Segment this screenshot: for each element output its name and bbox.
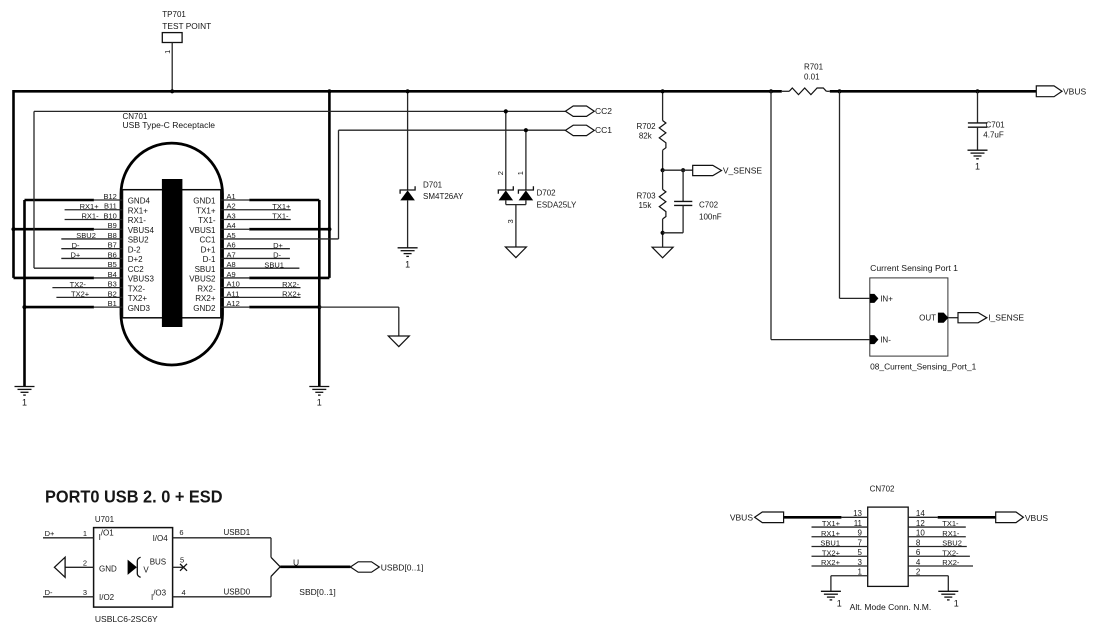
svg-text:A10: A10 (227, 280, 240, 289)
connector CN701 USB Type-C receptacle (121, 112, 223, 365)
pin 11 CN702 (812, 519, 868, 528)
svg-text:100nF: 100nF (699, 213, 722, 222)
ground (open triangle) R703/C702 (652, 247, 673, 258)
wire shield from A12 row (319, 306, 399, 308)
diode D702 ESDA25LY (dual) (498, 186, 577, 209)
port VBUS flag (CN702 left) (755, 512, 784, 523)
wire V_SENSE node horizontal (663, 169, 693, 171)
resistor R702 82k (636, 121, 665, 151)
ground (earth) CN702 pin 2 (938, 591, 959, 608)
svg-text:TX1+: TX1+ (822, 519, 841, 528)
pin 6 CN702 (908, 548, 970, 557)
capacitor C702 100nF (663, 170, 722, 233)
wire node to R703 (662, 170, 664, 189)
svg-text:1: 1 (405, 260, 410, 270)
svg-text:1: 1 (954, 598, 959, 608)
port VBUS flag (top right) (1036, 86, 1062, 97)
junction left VBUS rail / B9 (11, 227, 15, 231)
wire CC2 net from pin B5 (34, 267, 123, 269)
wire VBUS1 pin A4 (249, 228, 329, 231)
svg-text:3: 3 (83, 588, 87, 597)
node V_SENSE junctions (661, 168, 665, 172)
svg-text:D+: D+ (45, 529, 55, 538)
port V_SENSE flag (693, 165, 722, 175)
pin B8 (SBU2) (61, 231, 149, 245)
svg-text:D702: D702 (537, 188, 557, 197)
svg-text:VBUS2: VBUS2 (189, 275, 216, 284)
svg-text:RX2-: RX2- (197, 284, 216, 293)
svg-text:PORT0 USB 2. 0 + ESD: PORT0 USB 2. 0 + ESD (45, 486, 223, 506)
svg-text:B9: B9 (108, 221, 117, 230)
svg-text:2: 2 (496, 171, 505, 175)
svg-text:B3: B3 (108, 280, 117, 289)
svg-text:U: U (293, 557, 299, 567)
svg-text:A11: A11 (227, 289, 240, 298)
pin OUT (938, 313, 949, 323)
svg-text:B12: B12 (103, 192, 116, 201)
pin 5 CN702 (812, 548, 868, 557)
wire VBUS left rail (12, 90, 15, 278)
svg-text:USBLC6-2SC6Y: USBLC6-2SC6Y (95, 614, 158, 624)
svg-text:A4: A4 (227, 221, 236, 230)
svg-text:Current Sensing Port 1: Current Sensing Port 1 (870, 264, 958, 273)
port CC2 flag (565, 106, 594, 116)
svg-text:B6: B6 (108, 250, 117, 259)
svg-text:RX2+: RX2+ (282, 290, 302, 299)
junction right VBUS rail / A4 (327, 227, 331, 231)
wire VBUS4 pin B9 (14, 228, 94, 231)
wire VBUS to D701 (407, 91, 409, 190)
svg-text:RX2-: RX2- (282, 280, 300, 289)
wire VBUS to CN702 pin 14 (938, 516, 996, 519)
svg-text:A9: A9 (227, 270, 236, 279)
svg-text:USBD1: USBD1 (224, 528, 251, 537)
svg-text:TX2-: TX2- (70, 280, 87, 289)
svg-text:RX2-: RX2- (942, 558, 960, 567)
svg-text:1: 1 (22, 398, 27, 408)
svg-text:VBUS3: VBUS3 (128, 275, 155, 284)
zener diode inside U701 (128, 557, 167, 577)
svg-text:TX1+: TX1+ (196, 206, 216, 215)
junction bus/R702 (661, 89, 665, 93)
pin B4 (VBUS3) (94, 270, 155, 284)
svg-text:VBUS1: VBUS1 (189, 226, 216, 235)
pin 4 CN702 (908, 558, 973, 567)
wire USBD bus (thick) (280, 565, 350, 568)
wire GND2 pin A12 (249, 306, 319, 309)
svg-text:TX1-: TX1- (198, 216, 216, 225)
svg-text:RX1+: RX1+ (128, 206, 149, 215)
junction left GND rail / B1 (22, 305, 26, 309)
svg-text:TX2-: TX2- (128, 284, 146, 293)
svg-text:D+2: D+2 (128, 255, 143, 264)
wire CN702 pin 2 to ground (947, 576, 949, 592)
block U current sensing port 1 (870, 264, 977, 372)
svg-text:3: 3 (506, 219, 515, 223)
svg-text:RX1-: RX1- (128, 216, 147, 225)
wire VBUS bus (top horizontal) (14, 90, 782, 93)
pin A1 (GND1) (193, 192, 249, 206)
svg-text:TX2+: TX2+ (71, 290, 90, 299)
svg-text:2: 2 (83, 558, 87, 567)
svg-text:1: 1 (516, 171, 525, 175)
connector CN702 (868, 485, 909, 587)
svg-text:CC2: CC2 (595, 106, 612, 116)
svg-text:VBUS: VBUS (1063, 87, 1086, 97)
wire VBUS to CN702 pin 13 (784, 516, 842, 519)
svg-text:RX1+: RX1+ (80, 202, 100, 211)
wire bus gather USBD0 (270, 576, 272, 596)
svg-text:1: 1 (975, 162, 980, 172)
pin B2 (TX2+) (56, 289, 147, 303)
pin A4 (VBUS1) (189, 221, 249, 235)
svg-text:A6: A6 (227, 241, 236, 250)
pin 1 CN702 (831, 568, 868, 577)
svg-text:IN+: IN+ (880, 294, 893, 303)
svg-text:D+1: D+1 (201, 245, 216, 254)
svg-text:6: 6 (179, 528, 183, 537)
svg-text:I/O2: I/O2 (99, 593, 115, 602)
wire USBD1 (173, 537, 271, 539)
svg-text:A3: A3 (227, 211, 236, 220)
svg-text:U701: U701 (95, 515, 115, 524)
pin 3 CN702 (812, 558, 868, 567)
wire VBUS3 pin B4 (14, 277, 94, 280)
pin 2 CN702 (908, 568, 948, 577)
svg-text:A7: A7 (227, 250, 236, 259)
wire R703 to ground node (662, 219, 664, 247)
wire D702 pin 1 from CC1 (525, 130, 527, 190)
ground (earth) left of CN701 (15, 387, 35, 408)
wire GND1 pin A1 (249, 199, 319, 202)
svg-text:A8: A8 (227, 260, 236, 269)
pin B9 (VBUS4) (94, 221, 155, 235)
port VBUS flag (CN702 right) (996, 512, 1024, 523)
pin A10 (RX2-) (197, 280, 300, 294)
wire D702 pin 2 from CC2 (505, 111, 507, 190)
junction CC2/D702 pin2 (504, 109, 508, 113)
svg-text:SBU2: SBU2 (76, 231, 96, 240)
svg-text:1: 1 (317, 398, 322, 408)
pin 8 CN702 (908, 538, 967, 547)
svg-text:SBU2: SBU2 (128, 236, 149, 245)
pin A6 (D+1) (201, 241, 290, 255)
svg-text:CC1: CC1 (199, 236, 216, 245)
svg-text:VBUS: VBUS (730, 513, 753, 523)
junction bus/C701 (975, 89, 979, 93)
port I_SENSE flag (958, 313, 987, 323)
wire OUT to I_SENSE (949, 317, 959, 319)
wire GND left rail (23, 200, 26, 387)
pin A5 (CC1) (199, 231, 235, 245)
svg-text:I_SENSE: I_SENSE (988, 313, 1024, 323)
svg-text:GND: GND (99, 565, 117, 574)
svg-text:D-1: D-1 (203, 255, 216, 264)
IC U701 USBLC6-2SC6Y (94, 515, 173, 607)
wire bus to R702 (662, 91, 664, 120)
svg-text:B8: B8 (108, 231, 117, 240)
svg-text:TX2-: TX2- (942, 548, 959, 557)
svg-text:08_Current_Sensing_Port_1: 08_Current_Sensing_Port_1 (870, 363, 977, 372)
svg-text:OUT: OUT (919, 314, 936, 323)
svg-text:RX1-: RX1- (82, 212, 100, 221)
svg-text:R703: R703 (636, 192, 656, 201)
pin A11 (RX2+) (195, 289, 300, 303)
resistor R701 0.01 (782, 62, 830, 94)
junction VBUS bus / right rail (327, 89, 331, 93)
svg-text:B10: B10 (103, 211, 116, 220)
wire VBUS bus right of R701 (830, 90, 1037, 93)
svg-text:1: 1 (165, 50, 172, 54)
svg-text:CN702: CN702 (870, 485, 895, 494)
svg-text:D-2: D-2 (128, 245, 141, 254)
pin B6 (D+2) (61, 250, 143, 264)
pin B11 (RX1+) (65, 202, 149, 216)
port USBD[0..1] bus flag (350, 562, 379, 572)
wire GND3 pin B1 (25, 306, 94, 309)
svg-text:/O1: /O1 (101, 529, 114, 538)
svg-text:SBD[0..1]: SBD[0..1] (299, 587, 335, 597)
svg-text:RX2+: RX2+ (821, 558, 841, 567)
svg-text:TX2+: TX2+ (128, 294, 148, 303)
svg-text:TX1-: TX1- (942, 519, 959, 528)
svg-text:82k: 82k (639, 132, 653, 141)
capacitor C701 4.7uF (968, 91, 1005, 150)
svg-text:CC2: CC2 (128, 265, 145, 274)
wire VBUS2 pin A9 (249, 277, 329, 280)
pin 7 CN702 (812, 538, 868, 547)
pin B10 (RX1-) (65, 211, 147, 225)
wire CC1 net from pin A5 (221, 238, 339, 240)
svg-text:USB Type-C Receptacle: USB Type-C Receptacle (123, 121, 216, 130)
svg-text:/O3: /O3 (153, 589, 166, 598)
pin B5 (CC2) (108, 260, 145, 274)
svg-text:TEST POINT: TEST POINT (162, 22, 211, 31)
wire CN702 pin 1 to ground (830, 576, 832, 592)
svg-text:VBUS: VBUS (1025, 513, 1048, 523)
svg-text:A1: A1 (227, 192, 236, 201)
pin A3 (TX1-) (198, 211, 291, 225)
svg-text:SBU2: SBU2 (942, 539, 962, 548)
ground (earth) CN702 pin 1 (821, 591, 842, 608)
svg-text:TX1+: TX1+ (272, 202, 291, 211)
svg-text:4.7uF: 4.7uF (983, 131, 1004, 140)
svg-text:D+: D+ (273, 241, 283, 250)
test point TP701 (162, 10, 211, 54)
svg-text:GND4: GND4 (128, 197, 151, 206)
pin A7 (D-1) (203, 250, 290, 264)
port CC1 flag (565, 125, 594, 135)
svg-text:R701: R701 (804, 62, 824, 71)
pin A2 (TX1+) (196, 202, 291, 216)
svg-text:GND3: GND3 (128, 304, 151, 313)
svg-text:0.01: 0.01 (804, 73, 820, 82)
svg-text:TX1-: TX1- (272, 212, 289, 221)
ground (earth) D701 (398, 248, 418, 270)
pin B1 (GND3) (94, 299, 151, 313)
pin A8 (SBU1) (195, 260, 300, 274)
svg-text:RX2+: RX2+ (195, 294, 216, 303)
diode D701 SM4T26AY (400, 181, 464, 201)
wire VBUS right rail (328, 90, 331, 278)
svg-text:D+: D+ (71, 251, 81, 260)
wire GND4 pin B12 (25, 199, 94, 202)
svg-text:SBU1: SBU1 (820, 539, 840, 548)
svg-text:A2: A2 (227, 202, 236, 211)
svg-text:I/O4: I/O4 (153, 534, 169, 543)
svg-text:GND2: GND2 (193, 304, 216, 313)
svg-text:D701: D701 (423, 181, 443, 190)
pin 14 CN702 (908, 509, 938, 518)
svg-text:1: 1 (83, 529, 87, 538)
svg-text:IN-: IN- (880, 336, 891, 345)
wire IN+ from VBUS after shunt (839, 91, 841, 298)
svg-text:RX1+: RX1+ (821, 529, 841, 538)
wire bus gather USBD1 (270, 538, 272, 558)
svg-text:C701: C701 (986, 121, 1006, 130)
svg-text:4: 4 (182, 588, 186, 597)
svg-text:GND1: GND1 (193, 197, 216, 206)
svg-text:SM4T26AY: SM4T26AY (423, 192, 464, 201)
svg-text:B4: B4 (108, 270, 117, 279)
pin A12 (GND2) (193, 299, 249, 313)
svg-text:USBD0: USBD0 (224, 588, 251, 597)
junction R703/C702 bottom (661, 231, 665, 235)
svg-text:USBD[0..1]: USBD[0..1] (381, 562, 424, 572)
pin 12 CN702 (908, 519, 966, 528)
wire IN- from VBUS before shunt (770, 91, 772, 339)
svg-text:V_SENSE: V_SENSE (723, 165, 763, 175)
svg-text:B7: B7 (108, 241, 117, 250)
svg-text:CC1: CC1 (595, 125, 612, 135)
wire R702 to V_SENSE node (662, 150, 664, 170)
svg-text:SBU1: SBU1 (195, 265, 216, 274)
svg-text:R702: R702 (636, 122, 656, 131)
junction right GND rail / A12 (317, 305, 321, 309)
pin 9 CN702 (812, 529, 868, 538)
svg-text:A12: A12 (227, 299, 240, 308)
pin B7 (D-2) (61, 241, 141, 255)
resistor R703 15k (636, 189, 665, 219)
pin 13 CN702 (841, 509, 867, 518)
svg-text:5: 5 (180, 556, 184, 565)
pin B3 (TX2-) (52, 280, 145, 294)
svg-text:SBU1: SBU1 (264, 260, 284, 269)
svg-text:C702: C702 (699, 201, 719, 210)
svg-text:1: 1 (837, 598, 842, 608)
junction bus/D701 (406, 89, 410, 93)
wire D702 anodes join to pin 3 (505, 200, 507, 204)
svg-text:V: V (143, 566, 149, 575)
junction CC1/D702 pin1 (524, 128, 528, 132)
pin IN- (870, 335, 879, 344)
svg-text:VBUS4: VBUS4 (128, 226, 155, 235)
wire D701 anode to ground (407, 200, 409, 247)
svg-text:D-: D- (72, 241, 80, 250)
wire TP701 to VBUS bus (171, 43, 173, 92)
svg-text:TP701: TP701 (162, 10, 186, 19)
svg-text:D-: D- (45, 588, 53, 597)
svg-text:B2: B2 (108, 289, 117, 298)
pin 10 CN702 (908, 529, 966, 538)
svg-text:B11: B11 (104, 202, 117, 211)
ground (open triangle) D702 (505, 247, 526, 258)
ground (open triangle) shield (388, 336, 409, 347)
svg-text:15k: 15k (638, 201, 652, 210)
junction TP701/bus (170, 89, 174, 93)
pin B12 (GND4) (94, 192, 151, 206)
junction bus/IN+ tap (837, 89, 841, 93)
svg-text:RX1-: RX1- (942, 529, 960, 538)
svg-text:BUS: BUS (150, 558, 166, 567)
svg-text:ESDA25LY: ESDA25LY (537, 201, 578, 210)
svg-text:Alt. Mode Conn. N.M.: Alt. Mode Conn. N.M. (850, 602, 932, 612)
svg-text:B1: B1 (108, 299, 117, 308)
svg-text:D-: D- (273, 251, 281, 260)
ground (earth) right of CN701 (309, 387, 329, 408)
ground (earth) C701 (968, 150, 988, 171)
wire GND right rail (318, 200, 321, 387)
junction bus/IN- tap (769, 89, 773, 93)
pin IN+ (870, 294, 879, 303)
svg-text:CN701: CN701 (123, 112, 148, 121)
svg-text:TX2+: TX2+ (822, 548, 841, 557)
pin A9 (VBUS2) (189, 270, 249, 284)
wire USBD0 (173, 596, 271, 598)
